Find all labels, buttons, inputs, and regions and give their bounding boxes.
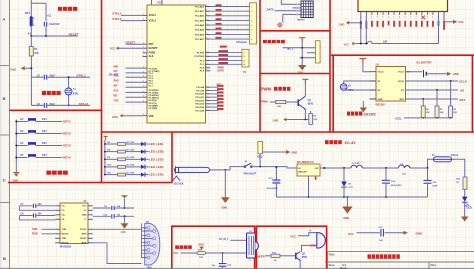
- svg-text:P0.6-AD6: P0.6-AD6: [195, 33, 205, 36]
- svg-text:3: 3: [206, 19, 207, 21]
- svg-text:P2.2-A10: P2.2-A10: [195, 93, 205, 96]
- svg-text:P0.4-AD4: P0.4-AD4: [195, 24, 205, 27]
- capacitor C10: [93, 214, 134, 219]
- net micro-labels P0 bus: [216, 4, 222, 38]
- svg-text:3: 3: [206, 99, 207, 101]
- svg-text:P0.0-AD0: P0.0-AD0: [195, 5, 205, 8]
- net label RXD: [32, 232, 55, 236]
- svg-text:T2OUT: T2OUT: [80, 238, 88, 240]
- svg-text:T1IN: T1IN: [62, 229, 67, 231]
- svg-text:STAL1: STAL1: [112, 12, 121, 16]
- resistor R7: [104, 142, 130, 146]
- svg-text:3: 3: [206, 59, 207, 61]
- ground power rail: [342, 197, 352, 220]
- svg-text:10uF/10V: 10uF/10V: [49, 23, 60, 26]
- svg-text:R2OUT: R2OUT: [62, 243, 70, 245]
- svg-text:220uF/25V: 220uF/25V: [391, 185, 402, 187]
- IR remote section box: [172, 226, 255, 269]
- MCU U2 AT89C52 body: [147, 5, 206, 123]
- wire dc jack gnd drop: [224, 170, 226, 197]
- svg-text:3: 3: [206, 96, 207, 98]
- svg-text:1: 1: [143, 76, 144, 78]
- svg-text:C: C: [3, 178, 6, 183]
- svg-text:P2.7-A15: P2.7-A15: [195, 109, 205, 112]
- label 时钟芯片DS1302 (RTC chip title): [347, 112, 376, 117]
- connector P1: [242, 49, 249, 74]
- svg-text:VCC: VCC: [82, 206, 87, 208]
- svg-text:MAX3232: MAX3232: [60, 246, 72, 249]
- svg-text:LED_LED3: LED_LED3: [149, 157, 164, 161]
- svg-text:P1.1/T2EX: P1.1/T2EX: [194, 56, 205, 58]
- svg-text:3: 3: [206, 24, 207, 26]
- svg-text:9: 9: [404, 17, 405, 19]
- svg-text:1: 1: [143, 19, 144, 21]
- resistor R8: [104, 149, 130, 153]
- svg-text:GND: GND: [453, 72, 459, 76]
- svg-text:3: 3: [206, 55, 207, 57]
- LED D01: [126, 142, 149, 146]
- svg-text:GND: GND: [298, 72, 303, 74]
- svg-text:HY_IR_1: HY_IR_1: [219, 238, 229, 241]
- svg-text:10K: 10K: [34, 52, 39, 55]
- svg-text:VCC2: VCC2: [378, 72, 385, 74]
- inductor L2: [399, 163, 411, 175]
- svg-text:GND: GND: [222, 206, 228, 209]
- svg-text:1: 1: [143, 101, 144, 103]
- label 独立按键 (independent keys title): [46, 171, 67, 175]
- svg-text:VSS: VSS: [149, 115, 154, 118]
- wire reset node: [31, 25, 77, 36]
- svg-text:3: 3: [206, 66, 207, 68]
- svg-text:STAL: STAL: [73, 93, 80, 96]
- regulator U6 LM2940: [297, 161, 320, 176]
- ground max232: [121, 216, 129, 234]
- svg-text:INT: INT: [114, 85, 118, 88]
- LED D04: [126, 164, 149, 169]
- svg-text:PW-ADJST: PW-ADJST: [244, 172, 257, 175]
- wire serial loop: [107, 243, 142, 264]
- capacitor C12: [212, 253, 232, 269]
- svg-text:P3.4(T0): P3.4(T0): [149, 99, 157, 102]
- svg-text:P2.0-A8: P2.0-A8: [196, 86, 204, 89]
- resistor R1: [29, 36, 39, 56]
- svg-text:3: 3: [206, 14, 207, 16]
- resistor R5 pullup: [435, 90, 444, 119]
- svg-text:1: 1: [143, 67, 144, 69]
- svg-text:1: 1: [143, 71, 144, 73]
- svg-text:B1 BATTRY: B1 BATTRY: [417, 61, 433, 65]
- svg-text:P3.7(RD): P3.7(RD): [149, 108, 158, 110]
- svg-text:3: 3: [206, 51, 207, 53]
- svg-text:KEY2: KEY2: [63, 131, 71, 135]
- svg-text:STAL2: STAL2: [112, 17, 121, 21]
- svg-text:10K: 10K: [440, 112, 444, 114]
- svg-text:VCC: VCC: [173, 251, 179, 255]
- LCD pin net labels (vertical): [360, 21, 445, 30]
- svg-text:KEY: KEY: [42, 142, 47, 145]
- label 热释电红外 (pyroelectric IR title): [263, 40, 285, 43]
- pushbutton K1 (reset key): [25, 11, 34, 36]
- LED D02: [126, 149, 149, 153]
- net label STAL1 (mcu): [112, 12, 142, 16]
- svg-text:STAL2: STAL2: [79, 102, 89, 106]
- VCC port (EA pin): [110, 46, 143, 50]
- serial driver U3 MAX232 body: [60, 203, 88, 244]
- svg-text:1: 1: [143, 91, 144, 93]
- key rail wire: [15, 120, 17, 173]
- svg-text:KEY1: KEY1: [63, 119, 71, 123]
- svg-text:1: 1: [143, 96, 144, 98]
- svg-text:RST: RST: [149, 43, 154, 46]
- net label VCC ir: [173, 251, 197, 255]
- svg-text:P0.7-AD7: P0.7-AD7: [195, 38, 205, 41]
- red mark lcd: [422, 16, 426, 20]
- MAX232 pin names: [62, 206, 88, 245]
- svg-text:PSEN: PSEN: [149, 52, 156, 55]
- svg-text:5: 5: [382, 17, 383, 19]
- svg-text:3: 3: [206, 102, 207, 104]
- capacitor C14: [382, 168, 402, 197]
- capacitor C9: [93, 205, 134, 210]
- svg-text:500mA: 500mA: [451, 154, 459, 157]
- connector J2 LCD header: [250, 3, 257, 44]
- resistor R13 buzzer: [271, 253, 296, 263]
- matrix keypad component: [301, 1, 313, 18]
- wires P1 nets to connector: [210, 52, 242, 64]
- svg-text:GND: GND: [121, 231, 127, 234]
- svg-text:R1IN: R1IN: [82, 234, 87, 236]
- pushbutton K4: [15, 142, 62, 147]
- DC jack barrel: [175, 166, 210, 173]
- svg-text:1: 1: [410, 17, 411, 19]
- net label TXD: [32, 227, 55, 231]
- svg-text:KEY: KEY: [42, 130, 47, 133]
- wire reset top: [31, 0, 46, 21]
- svg-text:V-: V-: [85, 219, 87, 221]
- svg-text:R1OUT: R1OUT: [62, 234, 70, 236]
- DS1302 pin names: [378, 72, 405, 101]
- svg-text:3: 3: [206, 28, 207, 30]
- svg-text:3: 3: [206, 89, 207, 91]
- svg-text:IR1: IR1: [114, 95, 118, 98]
- svg-text:2K: 2K: [126, 149, 129, 151]
- net micro-labels P2: [217, 85, 224, 110]
- svg-text:+: +: [309, 229, 311, 233]
- svg-text:VCC: VCC: [344, 42, 350, 46]
- power jack connector J1: [257, 141, 262, 158]
- svg-text:BEEP: BEEP: [257, 254, 265, 258]
- svg-text:I/O: I/O: [401, 90, 404, 92]
- svg-text:GND: GND: [291, 150, 297, 154]
- net label NET top: [220, 46, 227, 48]
- sheet left margin: [0, 0, 9, 269]
- svg-text:DATA: DATA: [218, 70, 225, 73]
- svg-text:P0.3-AD3: P0.3-AD3: [195, 19, 205, 22]
- resistor R10: [104, 165, 130, 169]
- LED D4 power: [462, 189, 472, 216]
- svg-text:LED_LED2: LED_LED2: [149, 150, 164, 154]
- svg-text:8550: 8550: [308, 103, 314, 106]
- svg-text:N05: N05: [114, 65, 119, 68]
- svg-text:30pF: 30pF: [49, 103, 55, 106]
- svg-text:3: 3: [206, 5, 207, 7]
- LCD pin stubs: [361, 12, 444, 16]
- VCC port lcd contrast: [344, 42, 356, 47]
- svg-text:RXD: RXD: [32, 232, 38, 236]
- svg-text:10u: 10u: [212, 265, 216, 267]
- svg-text:1: 1: [143, 51, 144, 53]
- VCC port ds1302: [359, 59, 366, 64]
- wire P0 bus to LCD header: [210, 7, 249, 40]
- svg-text:3: 3: [206, 86, 207, 88]
- svg-text:KY0: KY0: [114, 90, 119, 93]
- ground LED: [461, 217, 468, 222]
- junction dots pyro: [301, 47, 303, 59]
- resistor R9: [104, 157, 130, 161]
- svg-text:1: 1: [143, 55, 144, 57]
- title block small texts: [329, 252, 437, 269]
- buzzer BZ1: [310, 233, 325, 248]
- MCU pin stubs: [143, 7, 211, 116]
- wire I/O: [406, 88, 465, 92]
- ground battery: [447, 72, 459, 76]
- svg-text:DS1302: DS1302: [376, 104, 386, 107]
- svg-text:4.7V: 4.7V: [348, 186, 353, 189]
- svg-text:1: 1: [143, 81, 144, 83]
- wire vcc2: [363, 64, 370, 72]
- svg-text:B: B: [3, 96, 6, 101]
- crystal Y2: [340, 84, 354, 92]
- svg-text:Size: Size: [329, 263, 335, 267]
- net label STAL2 (mcu): [112, 17, 142, 21]
- svg-text:PWM: PWM: [260, 87, 271, 92]
- wires P2 nets: [210, 87, 218, 110]
- capacitor C11 decouple: [348, 227, 422, 242]
- RTC U5 DS1302 body: [376, 67, 406, 102]
- svg-text:XTAL2: XTAL2: [149, 19, 157, 22]
- wire keypad data: [275, 0, 293, 23]
- junction dots power rail: [323, 167, 428, 169]
- wire switch to node: [252, 154, 297, 168]
- VCC port LCD: [444, 12, 464, 25]
- svg-text:2K: 2K: [126, 172, 129, 174]
- capacitor C3 row: [31, 103, 90, 108]
- svg-text:1K: 1K: [274, 260, 277, 262]
- svg-text:VCC: VCC: [458, 20, 464, 24]
- svg-text:ALE: ALE: [149, 55, 154, 58]
- svg-text:LED_LED5: LED_LED5: [149, 173, 164, 177]
- wire ir data: [231, 239, 247, 241]
- svg-text:KEY: KEY: [42, 154, 47, 157]
- svg-text:LED_LED1: LED_LED1: [149, 142, 164, 146]
- net label RESET (mcu): [126, 40, 143, 44]
- junction dots LCD: [360, 22, 368, 45]
- svg-text:3: 3: [206, 37, 207, 39]
- svg-text:Rev: Rev: [431, 263, 437, 267]
- wire LCD backlight: [356, 15, 439, 44]
- svg-text:GND: GND: [416, 231, 422, 235]
- inductor L1: [351, 163, 362, 168]
- svg-text:DS1302: DS1302: [364, 112, 376, 116]
- svg-text:10K: 10K: [426, 112, 430, 114]
- label 电源部分 (power section title): [325, 140, 356, 145]
- svg-text:GND: GND: [273, 118, 279, 122]
- transistor Q2: [296, 252, 308, 261]
- capacitor C13 input: [267, 166, 280, 197]
- DS1302 pin stubs: [370, 72, 411, 99]
- resistor R15 ir: [197, 250, 247, 260]
- svg-text:RST: RST: [459, 98, 465, 102]
- svg-text:ir: ir: [250, 259, 252, 262]
- svg-text:KEY3: KEY3: [63, 143, 71, 147]
- wire jack gnd: [262, 150, 297, 154]
- wire buzzer emitter: [299, 260, 301, 268]
- label 红外遥控 (IR remote title): [175, 245, 192, 249]
- ground ir small: [198, 245, 204, 250]
- svg-text:P2.3-A11: P2.3-A11: [195, 96, 204, 99]
- svg-text:C2-: C2-: [62, 219, 66, 221]
- svg-text:GND: GND: [378, 99, 383, 101]
- svg-text:GND: GND: [10, 67, 16, 71]
- svg-text:GND: GND: [13, 180, 19, 183]
- MCU right pin names: [194, 5, 205, 112]
- svg-text:4MTRX: 4MTRX: [297, 18, 305, 21]
- svg-text:KEY4: KEY4: [63, 155, 71, 159]
- svg-text:3: 3: [206, 33, 207, 35]
- ground keypad (earth port): [278, 23, 282, 27]
- resistor R4 pullup: [421, 99, 430, 119]
- svg-text:P0.1-AD1: P0.1-AD1: [195, 10, 205, 13]
- svg-text:VCC: VCC: [110, 47, 116, 51]
- ground dc jack: [221, 197, 230, 209]
- ground port GND (reset/clock): [10, 66, 32, 71]
- keypad pin squares: [297, 3, 299, 15]
- svg-text:SCLK: SCLK: [459, 79, 468, 83]
- wire power bottom rail: [276, 176, 427, 198]
- svg-text:6: 6: [388, 17, 389, 19]
- label 时钟电路 (clock circuit title): [42, 91, 61, 95]
- svg-text:P2.6-A14: P2.6-A14: [195, 106, 205, 109]
- red mark regulator: [315, 177, 317, 180]
- VCC port max232: [122, 196, 128, 209]
- title block lines: [0, 252, 474, 269]
- red section divider skeleton: [8, 0, 474, 183]
- svg-text:KEY: KEY: [25, 11, 31, 15]
- svg-text:LED_LED4: LED_LED4: [149, 165, 164, 169]
- zigzag dc jack sleeve: [173, 176, 180, 181]
- crystal Y2 loop: [344, 81, 370, 90]
- resistor R3 pwm: [309, 111, 318, 125]
- svg-text:P0.2-AD2: P0.2-AD2: [195, 15, 205, 18]
- MAX232 pin stubs: [55, 206, 93, 243]
- MCU left pin names: [149, 14, 160, 118]
- svg-text:3: 3: [206, 106, 207, 108]
- label 复位电路 (reset circuit title): [58, 7, 77, 11]
- svg-text:BT_1: BT_1: [288, 48, 295, 51]
- svg-text:R2IN: R2IN: [82, 243, 87, 245]
- svg-text:GND: GND: [82, 215, 87, 217]
- svg-text:P0.5-AD5: P0.5-AD5: [195, 29, 205, 32]
- DB9 pins: [147, 227, 156, 259]
- svg-text:8550: 8550: [302, 257, 308, 259]
- buzzer section box: [256, 226, 326, 269]
- net label VCC buzzer: [290, 233, 317, 239]
- svg-text:7: 7: [393, 17, 394, 19]
- wire MCU top feeds: [152, 0, 163, 5]
- svg-text:1: 1: [143, 14, 144, 16]
- LCD pin numbers: [360, 16, 444, 19]
- wire T1OUT to DB9: [93, 228, 142, 230]
- MAX232 name: [60, 201, 87, 248]
- svg-text:GND: GND: [198, 245, 203, 247]
- net labels P1 left: [114, 65, 120, 102]
- LED D05: [126, 172, 149, 176]
- svg-text:1: 1: [143, 86, 144, 88]
- svg-text:P1.0/T2: P1.0/T2: [197, 52, 205, 54]
- wires pyro: [283, 42, 316, 65]
- svg-text:1: 1: [143, 43, 144, 45]
- capacitor C7: [20, 203, 56, 210]
- svg-text:1: 1: [143, 114, 144, 116]
- resistor R12: [456, 177, 467, 189]
- svg-text:10K: 10K: [453, 112, 457, 114]
- svg-text:Title: Title: [329, 252, 335, 256]
- VCC port pyro: [299, 38, 305, 42]
- net label BEEP: [257, 254, 271, 258]
- ground ds1302: [360, 101, 367, 112]
- svg-text:RESET: RESET: [69, 33, 79, 37]
- svg-text:KEY: KEY: [42, 118, 47, 121]
- svg-text:RST: RST: [400, 99, 405, 101]
- svg-text:1K: 1K: [456, 182, 459, 184]
- VCC port pwm: [302, 79, 308, 83]
- GND port (VSS): [112, 114, 143, 119]
- label 智能药盒控制系统 (sheet title): [368, 254, 400, 258]
- wire vcc pullups: [395, 116, 451, 120]
- svg-text:+C1: +C1: [47, 15, 52, 18]
- wire buzzer collector: [302, 245, 317, 251]
- svg-text:LED: LED: [467, 207, 472, 210]
- svg-text:L1 33R: L1 33R: [352, 163, 360, 165]
- LCD display body: [358, 0, 448, 12]
- ground pyro: [298, 65, 306, 74]
- ground pwm: [273, 118, 309, 123]
- VCC port LED rail: [104, 136, 108, 139]
- svg-text:10K: 10K: [383, 40, 388, 43]
- label PWM电流放大 (PWM amplifier title): [260, 87, 290, 92]
- switch S1: [244, 161, 252, 167]
- pushbutton K2: [15, 118, 62, 123]
- svg-text:3: 3: [206, 92, 207, 94]
- ground port LCD: [339, 21, 361, 27]
- wire pwm collector: [304, 84, 306, 97]
- svg-text:B: B: [3, 256, 6, 261]
- svg-text:3: 3: [206, 63, 207, 65]
- svg-text:LCDinput: LCDinput: [236, 41, 247, 44]
- wire SCLK: [406, 79, 468, 83]
- keypad pin stubs: [293, 4, 302, 14]
- junction dots reset: [30, 35, 47, 37]
- svg-text:VCC: VCC: [290, 234, 296, 238]
- svg-text:DCACK: DCACK: [174, 182, 183, 186]
- svg-text:470uF/25V: 470uF/25V: [267, 187, 278, 190]
- svg-text:GND: GND: [339, 22, 345, 26]
- resistor R6 pullup: [449, 81, 458, 119]
- fuse F1: [432, 154, 459, 162]
- svg-text:VCC: VCC: [348, 232, 354, 236]
- capacitor C2 row: [31, 75, 90, 80]
- svg-text:3V--4V: 3V--4V: [345, 141, 357, 145]
